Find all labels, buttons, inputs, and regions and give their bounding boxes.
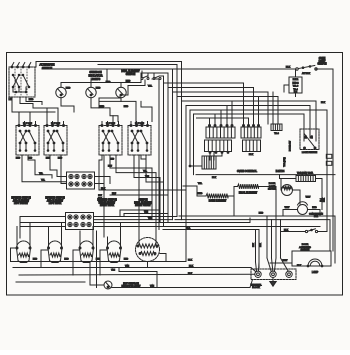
svg-text:RED: RED (106, 82, 111, 84)
surface indicator lights label (88, 70, 102, 81)
border frame (7, 53, 343, 296)
svg-text:RIGHT REAR: RIGHT REAR (100, 204, 114, 207)
wire element taps (11, 248, 108, 275)
svg-text:RED: RED (96, 87, 101, 89)
wire label BLK door (284, 229, 289, 231)
svg-text:OVEN CONTROL: OVEN CONTROL (237, 170, 258, 173)
svg-text:LEFT FRONT: LEFT FRONT (14, 203, 29, 205)
legend block rows (289, 77, 302, 94)
wire drops to LF switch (19, 112, 30, 122)
label H-1 TB4 (276, 171, 285, 173)
svg-text:DUAL ELEMENT: DUAL ELEMENT (134, 201, 152, 204)
wire bus y287 (112, 280, 253, 288)
svg-text:WHT: WHT (283, 260, 288, 262)
wire bus v5 (160, 76, 164, 227)
lock switch label (302, 152, 318, 154)
wire nest n4 (177, 97, 278, 125)
svg-text:LIGHT: LIGHT (319, 61, 326, 63)
svg-text:BLK: BLK (321, 102, 326, 104)
wire label TAN y267 (125, 264, 130, 267)
relay block B (241, 127, 261, 152)
svg-text:TERMINAL: TERMINAL (250, 283, 262, 286)
wire bus y216 (179, 216, 335, 263)
infinite switch RF label (134, 200, 152, 208)
svg-text:LOCK SWITCH: LOCK SWITCH (302, 152, 318, 154)
svg-text:OVEN: OVEN (319, 58, 326, 60)
bake element label (209, 200, 227, 203)
wire bus v4 (141, 73, 168, 223)
alternate switch SW1 (dashed box) (9, 63, 35, 98)
svg-text:BLK: BLK (260, 242, 262, 246)
svg-text:DOOR SW: DOOR SW (290, 141, 292, 151)
svg-text:BLU: BLU (112, 193, 117, 195)
wire nest n2 (168, 88, 254, 128)
wire RR switch drops (99, 155, 156, 237)
wire bus y275 (19, 273, 255, 276)
svg-text:RED: RED (29, 99, 34, 101)
infinite switch LF label (11, 198, 31, 206)
wire label RED units (33, 259, 129, 261)
wire nest n9 (197, 118, 249, 127)
svg-text:BLOCK: BLOCK (252, 287, 260, 289)
wire label BLK mid (101, 188, 106, 190)
svg-text:INDICATOR LIGHT: INDICATOR LIGHT (122, 285, 142, 288)
wire label BLK y261 (188, 259, 193, 261)
svg-text:BLK: BLK (324, 197, 326, 201)
svg-text:RED: RED (126, 81, 131, 83)
lamp label (312, 271, 319, 274)
broil element label (239, 193, 258, 195)
svg-text:TAN: TAN (111, 269, 115, 272)
wire dual element taps (139, 216, 166, 268)
svg-text:BLK: BLK (189, 265, 194, 267)
svg-text:YEL: YEL (198, 183, 203, 185)
svg-text:BLK: BLK (98, 195, 102, 197)
svg-text:TAN: TAN (145, 175, 149, 178)
svg-text:TB-3: TB-3 (274, 133, 279, 135)
svg-text:RED: RED (58, 157, 63, 159)
wire indicator drops (61, 98, 121, 122)
svg-text:LAMP: LAMP (312, 271, 319, 274)
wire label YEL RF (143, 171, 149, 178)
wire bus L1 top (36, 62, 182, 220)
oven control label (212, 170, 258, 179)
oven light switch label (317, 58, 326, 66)
svg-text:SURFACE: SURFACE (89, 70, 102, 74)
svg-text:RED: RED (124, 106, 129, 108)
connector TB4 (hatched) (296, 176, 316, 182)
svg-text:RED: RED (100, 106, 105, 108)
svg-text:INFINITE SWITCH: INFINITE SWITCH (45, 198, 65, 200)
wire mid step a (99, 101, 136, 121)
svg-text:WHT: WHT (285, 207, 290, 209)
connector CN2 leads (20, 217, 177, 220)
svg-text:RED-2: RED-2 (292, 82, 299, 84)
svg-text:RED: RED (124, 259, 129, 261)
infinite switch right rear (dashed box) (99, 122, 122, 156)
wire label YEL (148, 86, 153, 88)
svg-text:BLK: BLK (286, 67, 291, 69)
svg-text:TAN: TAN (150, 284, 155, 287)
wire broil left (234, 187, 238, 217)
wire bus y222 (20, 218, 250, 223)
wire label RED busbr (259, 213, 264, 215)
connector TB3 label (274, 133, 279, 135)
svg-text:LOCK: LOCK (269, 186, 275, 188)
svg-text:BLK: BLK (212, 177, 217, 179)
svg-text:BLK: BLK (249, 154, 254, 156)
svg-text:BLK-1: BLK-1 (293, 79, 299, 81)
door lock motor label (268, 183, 277, 191)
lock switch SW4 (dashed box) (300, 129, 319, 150)
wire label RED dual (126, 81, 131, 83)
dual element switch label (121, 70, 140, 76)
wire hot lamp feed (90, 262, 104, 285)
wire bus BLU mid (110, 194, 167, 196)
oven light switch SW3 (296, 66, 317, 71)
svg-text:SWITCH: SWITCH (317, 64, 326, 66)
rotated BLK pair (253, 230, 262, 272)
wire label BLK oven light (286, 67, 291, 69)
svg-text:BROIL ELEMENT: BROIL ELEMENT (239, 193, 258, 195)
wire label RED RR (108, 159, 115, 168)
svg-text:NC: NC (312, 135, 314, 138)
svg-text:BLU: BLU (108, 166, 112, 168)
wire lock motor feed (280, 175, 323, 210)
svg-text:BLK: BLK (284, 229, 289, 231)
svg-text:YEL-3: YEL-3 (293, 86, 299, 88)
surface element right front dual (136, 238, 160, 262)
svg-text:RED: RED (33, 259, 38, 261)
surface element left front (16, 241, 31, 262)
node L2 label (9, 98, 12, 101)
wire label TAN mid (144, 211, 148, 214)
svg-text:YEL: YEL (148, 86, 153, 88)
svg-text:RIGHT FRONT: RIGHT FRONT (135, 205, 151, 207)
svg-text:BAKE ELEMENT: BAKE ELEMENT (209, 200, 227, 203)
svg-text:RED: RED (259, 213, 264, 215)
indicator lamp DS3 (116, 83, 126, 98)
wire element risers (17, 223, 121, 245)
wire nest n6 (186, 106, 310, 129)
svg-text:RED: RED (66, 87, 71, 89)
infinite switch LR label (45, 198, 65, 206)
wire alternate switch to bus (12, 62, 55, 113)
svg-text:TB4 (BRN) TB4A: TB4 (BRN) TB4A (297, 171, 314, 174)
wire bus y267 (13, 268, 256, 272)
svg-text:BLK: BLK (297, 265, 302, 267)
svg-text:LIGHTS: LIGHTS (91, 77, 101, 81)
terminal N ring (270, 271, 276, 277)
wire label WHT motor (306, 197, 311, 199)
convection fan label (309, 214, 323, 219)
wire label YEL bake (198, 183, 203, 185)
svg-text:AND ELEMENT: AND ELEMENT (13, 199, 30, 202)
svg-text:BLK: BLK (253, 242, 255, 246)
wire left riser (19, 217, 21, 239)
infinite switch left front (dashed box) (16, 122, 39, 156)
wire label RED LR (41, 157, 63, 181)
svg-text:RED: RED (198, 193, 203, 195)
wire bus y226 (20, 226, 320, 228)
svg-text:INFINITE SWITCH: INFINITE SWITCH (11, 198, 31, 200)
wire label TAN y287 (150, 284, 155, 287)
wire bus v6 (152, 79, 159, 230)
infinite switch left rear (dashed box) (44, 122, 67, 156)
svg-text:RED: RED (312, 207, 317, 209)
right bus small tags (326, 154, 332, 165)
wire bundle mid drop (186, 106, 202, 191)
infinite switch right front (dashed box) (128, 122, 151, 156)
wire label RED indicators (66, 82, 111, 90)
wire broil right (259, 187, 277, 217)
wire indicator bus (61, 69, 141, 83)
wire bus L2 top (42, 68, 296, 70)
wire drops to relay block B (243, 118, 260, 127)
surface element right front inner (107, 241, 122, 263)
wire label WHT lamp (283, 260, 288, 262)
wire mid step d (112, 116, 114, 122)
svg-text:ALT BLK: ALT BLK (302, 72, 311, 75)
wire label WHT fan (285, 207, 290, 209)
door actuated switch SW5 (305, 229, 317, 233)
svg-text:RED: RED (110, 159, 115, 161)
wire door sw to right (318, 231, 327, 233)
wire nest n1 (164, 83, 244, 127)
wire door switch feed (281, 231, 305, 233)
wire nest n8 (194, 114, 305, 128)
wire TB3 riser (259, 92, 274, 127)
dual element switch SW2 (120, 71, 161, 95)
wire label BLK relay (249, 154, 254, 156)
wire RF switch drops (134, 155, 164, 238)
svg-text:BLU: BLU (98, 198, 102, 200)
wire alternate switch steps (20, 97, 58, 108)
ground arrow (270, 278, 276, 286)
wire bus y282 left (16, 281, 85, 283)
indicator lamp DS1 (56, 83, 66, 98)
wire nest n7 (190, 110, 327, 232)
relay block A (205, 127, 236, 152)
wire nest n3 (173, 92, 269, 124)
hot surface indicator label (122, 282, 142, 288)
wire bus y261 (11, 190, 187, 262)
wire hot lamp riser (96, 231, 98, 288)
connector H1 (hatched) (202, 156, 216, 169)
svg-text:BLK: BLK (188, 259, 193, 261)
door actuated switch label (299, 244, 311, 252)
wire LF switch drops (22, 155, 67, 182)
svg-text:TB-4: TB-4 (293, 89, 298, 91)
ground terminal box (dashed) (251, 269, 296, 280)
wire mid step b (99, 95, 120, 108)
svg-text:TB2-(BLK): TB2-(BLK) (284, 157, 286, 167)
svg-text:H-1/TB4: H-1/TB4 (276, 171, 285, 173)
indicator lamp DS2 (86, 83, 96, 98)
wire label BLK y275 (188, 273, 193, 275)
terminal L1 ring (255, 271, 261, 277)
wire label BLK right (321, 102, 326, 104)
mid label column (98, 195, 102, 203)
svg-text:AND ELEMENT: AND ELEMENT (47, 199, 64, 202)
connector CN1 leads right (95, 177, 111, 184)
svg-text:BLK: BLK (188, 273, 193, 275)
wire label RED (29, 99, 34, 101)
lamp DS4 (307, 259, 323, 267)
wire label BLK y229 (186, 227, 191, 229)
wire bundle to terminal (267, 216, 288, 271)
svg-text:DOOR: DOOR (269, 183, 276, 185)
wire lamp left (270, 262, 292, 264)
connector plug CN1 (67, 172, 95, 189)
svg-text:SWITCH: SWITCH (138, 200, 147, 202)
wire drops to LR switch (47, 108, 58, 122)
terminal L2 ring (286, 271, 292, 277)
wire drops to relay block A (209, 101, 234, 127)
wire nest n5 (182, 101, 317, 128)
wire mid nest b (124, 214, 168, 220)
svg-text:TAN: TAN (144, 211, 148, 214)
svg-text:BLK: BLK (101, 188, 106, 190)
svg-text:DOOR: DOOR (302, 244, 309, 246)
wire fan left (283, 210, 298, 217)
wire bus v3 (172, 69, 174, 220)
svg-text:HOT SURFACE: HOT SURFACE (123, 282, 139, 285)
label TB4 BRN (297, 171, 314, 174)
surface element right rear (79, 241, 94, 262)
wire label BLK lamp right (297, 265, 302, 267)
wire bus v2 (98, 65, 177, 217)
wire label RED fan (312, 207, 317, 209)
svg-text:MOTOR: MOTOR (268, 189, 277, 191)
wire mid nest a (120, 210, 160, 217)
svg-text:BLK: BLK (186, 227, 191, 229)
connector TB3 (hatched) (271, 124, 282, 131)
svg-text:WHT: WHT (306, 197, 311, 199)
svg-text:SWITCH: SWITCH (126, 73, 136, 76)
infinite switch RR label (97, 200, 117, 208)
rotated label TB2 (284, 157, 286, 167)
door lock motor M1 (281, 179, 300, 205)
wire bus y219 (175, 220, 330, 251)
lamp box (292, 251, 331, 266)
convection fan M2 (298, 202, 308, 215)
surface element left rear (48, 241, 63, 263)
wire label RED bake (198, 193, 203, 195)
wire tan link (111, 268, 157, 288)
wire label BLU mid (112, 193, 117, 195)
svg-text:RED: RED (96, 259, 101, 261)
wire label BLK y267 (189, 265, 194, 267)
wire label YEL mid (148, 218, 153, 220)
wire LR switch drops (50, 155, 67, 184)
terminal block label (250, 283, 262, 289)
bake element R1 (197, 194, 234, 199)
relay block outputs (209, 152, 229, 160)
wire bake feed (183, 186, 197, 196)
svg-text:TAN: TAN (125, 264, 130, 267)
svg-text:RED: RED (16, 157, 21, 159)
wire label RED LF (16, 157, 44, 175)
label ALT BLK (302, 72, 311, 75)
hot surface indicator lamp DS5 (104, 281, 112, 289)
svg-text:RED: RED (28, 157, 33, 159)
wire oven light to right bus (316, 69, 333, 251)
svg-text:LEFT REAR: LEFT REAR (49, 202, 62, 205)
svg-text:INDICATOR: INDICATOR (88, 74, 102, 78)
wire legend feed (284, 69, 296, 97)
door switch rotated label (290, 141, 292, 151)
svg-text:L2: L2 (9, 98, 12, 101)
connector plug CN2 (66, 213, 94, 230)
wire oven control line (196, 174, 335, 176)
rotated labels H4 BLK (321, 197, 326, 201)
svg-text:ACTUATED: ACTUATED (299, 246, 311, 249)
wire label RED mid steps (100, 106, 129, 108)
wire mid step c (141, 101, 152, 121)
wire bus y229 (163, 230, 259, 268)
svg-text:RED: RED (64, 259, 69, 261)
broil element R2 (238, 184, 259, 189)
alternate switch label (40, 63, 55, 70)
wire bus BLK mid (99, 189, 186, 191)
svg-text:RED: RED (46, 157, 51, 159)
wire fan right (308, 210, 321, 217)
